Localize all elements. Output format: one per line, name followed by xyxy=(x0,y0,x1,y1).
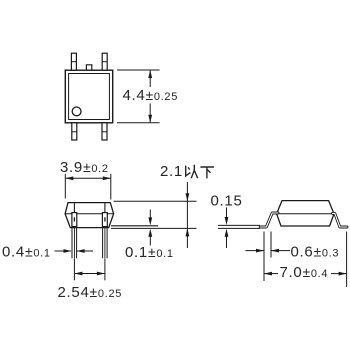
dimension 0.4 +/-0.1 arrows xyxy=(55,249,94,253)
dimension 2.1 max text xyxy=(160,163,214,180)
dimension 2.54 +/-0.25 extension lines xyxy=(74,259,105,281)
front view right pin lower lead xyxy=(103,227,108,259)
dimension 0.1 +/-0.1 arrows xyxy=(148,210,152,246)
top view package body outer outline xyxy=(65,70,112,123)
front view left pin center line upper xyxy=(73,203,75,212)
svg-text:0.15: 0.15 xyxy=(211,193,243,210)
dimension 3.9 +/-0.2 dimension line with arrows xyxy=(65,176,111,180)
front view package body hexagonal outline xyxy=(65,203,114,228)
dimension text 7.0 +/-0.4 xyxy=(280,264,329,281)
top view pin 1 (bottom-left lead) xyxy=(72,123,77,140)
dimension 0.15 arrows xyxy=(225,208,229,249)
dimension text 0.1 +/-0.1 xyxy=(125,244,174,261)
kanji 以 xyxy=(186,165,198,178)
top view pin1 index circle marker xyxy=(72,107,81,116)
dimension 7.0 +/-0.4 dimension line with arrows xyxy=(264,272,347,276)
dimension 7.0 +/-0.4 right extension line xyxy=(346,232,348,288)
dimension 2.1 max top extension line xyxy=(114,200,197,202)
seating plane line right pair lower xyxy=(218,227,260,229)
side view parting line xyxy=(277,213,334,215)
dimension 0.4 +/-0.1 text xyxy=(2,244,51,261)
dimension 0.6 +/-0.3 arrows xyxy=(246,249,291,253)
svg-text:2.1: 2.1 xyxy=(160,163,183,180)
front view right pin center line upper xyxy=(104,203,106,212)
dimension 2.54 +/-0.25 dimension line with arrows xyxy=(74,272,105,276)
seating plane line left pair lower xyxy=(111,227,197,229)
top view pin 4 (top-left lead) xyxy=(71,53,76,70)
front view parting line xyxy=(65,213,114,215)
dimension text 4.4 +/-0.25 xyxy=(123,87,179,104)
side view package body hexagonal outline xyxy=(277,201,334,226)
dimension 2.1 max dimension line with arrows xyxy=(186,182,190,248)
dimension 0.15 text xyxy=(211,193,243,210)
front view right pin shoulder xyxy=(102,213,107,227)
front view left pin lower lead xyxy=(72,227,77,259)
top view package body inner outline xyxy=(69,74,110,120)
kanji 下 xyxy=(200,167,214,178)
dimension 0.6 +/-0.3 extension lines xyxy=(264,232,271,282)
dimension text 2.54 +/-0.25 xyxy=(58,284,123,301)
dimension 4.4 +/-0.25 extension lines xyxy=(117,70,160,123)
side view left gull-wing lead xyxy=(260,213,278,227)
side view right gull-wing lead xyxy=(333,213,348,227)
top view center notch tab xyxy=(86,65,91,70)
dimension 3.9 +/-0.2 extension lines xyxy=(65,174,111,200)
dimension text 0.6 +/-0.3 xyxy=(291,244,340,261)
top view pin 2 (bottom-right lead) xyxy=(102,123,107,140)
top view pin 3 (top-right lead) xyxy=(102,53,107,70)
seating plane line left pair upper (body bottom extension) xyxy=(111,225,158,227)
front view left pin shoulder xyxy=(72,213,77,227)
seating plane line right pair upper xyxy=(218,224,260,226)
dimension 4.4 +/-0.25 dimension line with arrows xyxy=(148,70,152,123)
dimension 3.9 +/-0.2 text xyxy=(60,159,109,176)
